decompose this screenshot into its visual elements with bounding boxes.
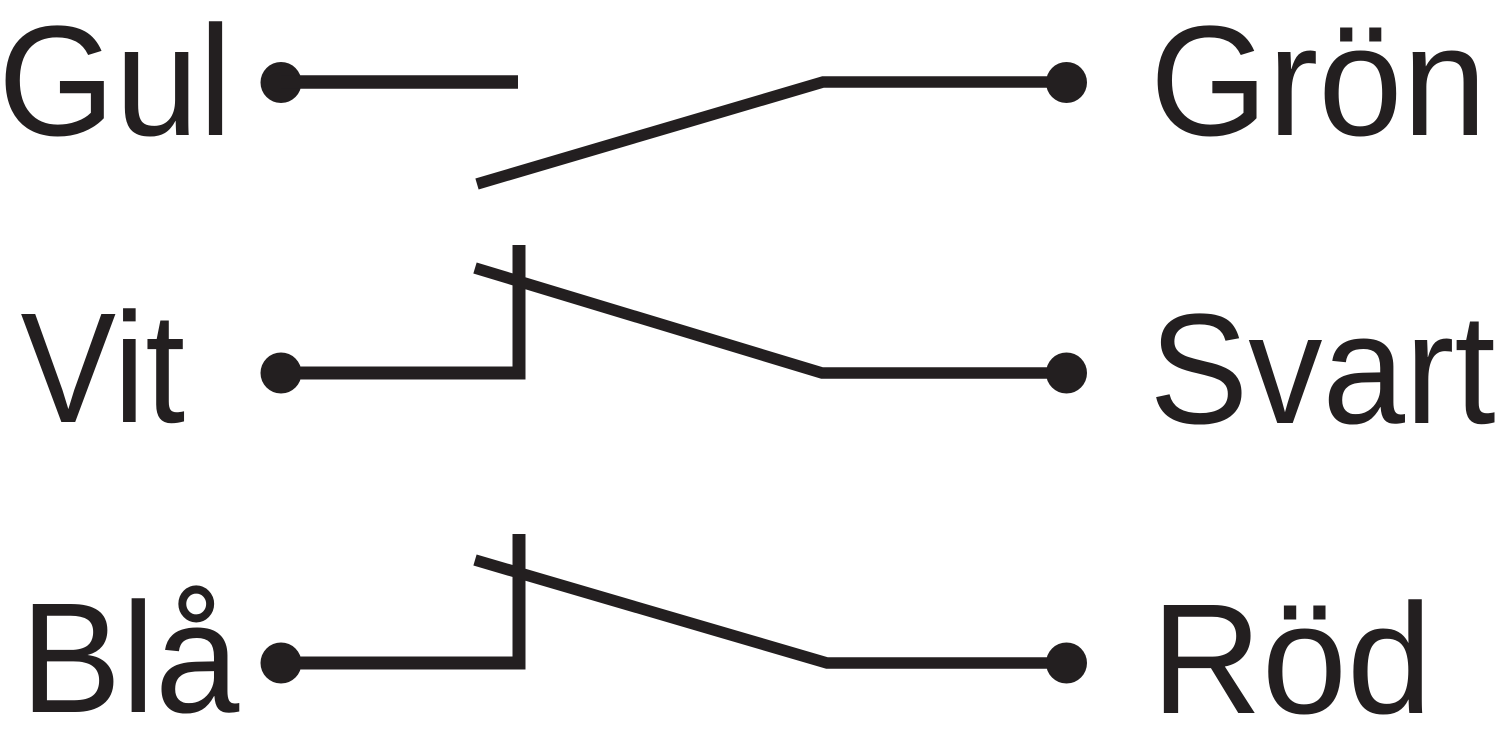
node dot left 2 (Vit terminal) — [261, 353, 302, 394]
node dot right 3 (Röd terminal) — [1046, 643, 1087, 684]
svg-text:Blå: Blå — [20, 571, 240, 746]
svg-text:Svart: Svart — [1149, 282, 1495, 457]
wire Gul horizontal — [281, 75, 518, 89]
svg-text:Röd: Röd — [1151, 572, 1432, 747]
switch blade S1 (diagonal to Grön) — [477, 82, 1066, 184]
node dot left 1 (Gul terminal) — [261, 62, 302, 103]
switch blade S3 (diagonal to Röd) — [475, 560, 1066, 663]
svg-text:Grön: Grön — [1150, 0, 1487, 169]
node dot left 3 (Blå terminal) — [261, 643, 302, 684]
wire Vit L-shape with contact post — [281, 245, 519, 373]
svg-text:Vit: Vit — [21, 281, 186, 456]
svg-text:Gul: Gul — [0, 0, 232, 169]
wire Blå L-shape with contact post — [281, 534, 519, 663]
node dot right 2 (Svart terminal) — [1046, 353, 1087, 394]
switch blade S2 (diagonal to Svart) — [475, 268, 1066, 373]
node dot right 1 (Grön terminal) — [1046, 62, 1087, 103]
